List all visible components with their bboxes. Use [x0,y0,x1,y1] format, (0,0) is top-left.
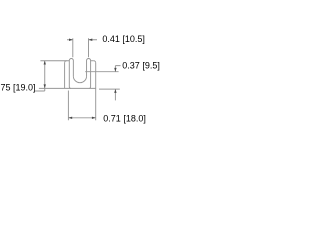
svg-text:0.41 [10.5]: 0.41 [10.5] [102,34,145,44]
svg-text:.75 [19.0]: .75 [19.0] [0,82,36,92]
svg-text:0.71 [18.0]: 0.71 [18.0] [103,113,146,123]
svg-text:0.37 [9.5]: 0.37 [9.5] [122,61,160,71]
